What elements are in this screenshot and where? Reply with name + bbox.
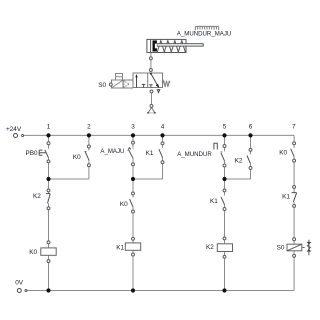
svg-text:S0: S0	[277, 245, 285, 252]
svg-text:1: 1	[47, 123, 51, 130]
svg-text:7: 7	[292, 123, 296, 130]
svg-text:K2: K2	[206, 244, 214, 251]
svg-text:S0: S0	[98, 82, 106, 89]
svg-text:4: 4	[161, 123, 165, 130]
svg-text:2: 2	[87, 123, 91, 130]
svg-text:A_MUNDUR: A_MUNDUR	[177, 151, 212, 158]
svg-text:K0: K0	[29, 249, 37, 256]
svg-text:6: 6	[249, 123, 253, 130]
svg-text:A_MAJU: A_MAJU	[100, 148, 124, 155]
svg-text:5: 5	[223, 123, 227, 130]
svg-text:PB0: PB0	[26, 150, 39, 157]
svg-text:K1: K1	[146, 150, 154, 157]
svg-text:0V: 0V	[15, 279, 24, 286]
svg-text:3: 3	[131, 123, 135, 130]
svg-text:K1: K1	[282, 193, 290, 200]
svg-text:K2: K2	[235, 158, 243, 165]
svg-text:K0: K0	[73, 154, 81, 161]
svg-text:K1: K1	[210, 198, 218, 205]
svg-text:K1: K1	[116, 244, 124, 251]
svg-text:K2: K2	[33, 193, 41, 200]
svg-text:A_MUNDUR_MAJU: A_MUNDUR_MAJU	[177, 31, 232, 38]
svg-text:+24V: +24V	[6, 126, 22, 133]
svg-text:K0: K0	[279, 149, 287, 156]
svg-text:K0: K0	[120, 201, 128, 208]
